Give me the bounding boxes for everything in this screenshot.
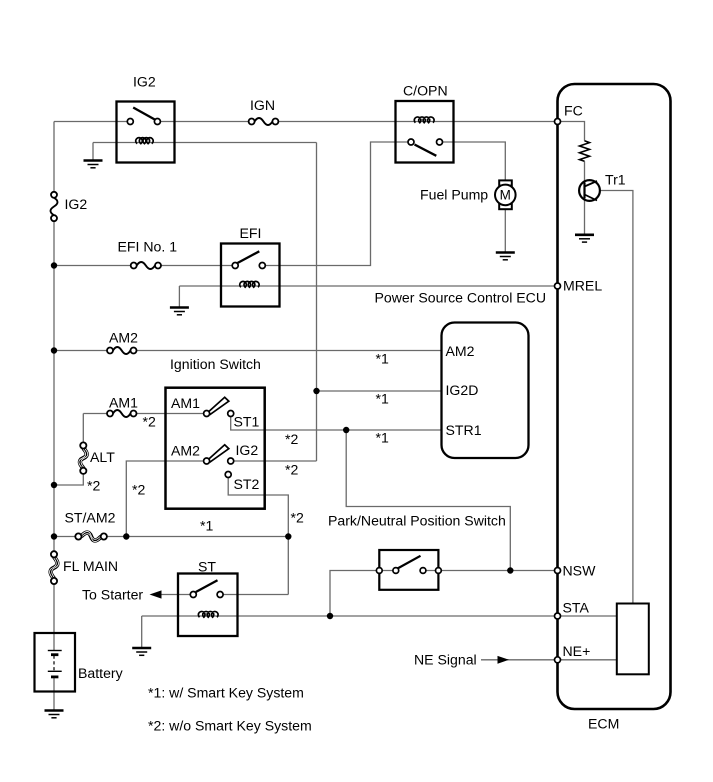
wire transistor emitter to ground bbox=[584, 200, 586, 235]
svg-text:IG2: IG2 bbox=[236, 442, 259, 458]
junction bus-ST/AM2 line bbox=[51, 533, 57, 539]
pin NE+ bbox=[555, 657, 561, 663]
svg-text:AM2: AM2 bbox=[109, 330, 138, 346]
svg-text:NE Signal: NE Signal bbox=[414, 652, 477, 668]
relay EFI switch blade bbox=[238, 251, 260, 263]
wire EFI coil line to MREL pin bbox=[179, 285, 557, 287]
ignition switch box bbox=[166, 388, 265, 509]
fuel pump motor M1 bbox=[495, 180, 516, 209]
junction park/neutral feed on STA line bbox=[327, 613, 333, 619]
wire IG2 relay coil line to vertical drop bbox=[93, 142, 317, 144]
svg-text:STR1: STR1 bbox=[446, 422, 482, 438]
park/neutral switch blade bbox=[398, 556, 421, 569]
wire EFI fuse to EFI relay contact bbox=[158, 265, 235, 267]
wire AM2 pivot feed vertical bbox=[126, 461, 206, 537]
svg-text:ST: ST bbox=[198, 559, 216, 575]
relay ST coil bbox=[198, 611, 218, 617]
wire FC to resistor lead bbox=[558, 122, 585, 141]
pin MREL bbox=[555, 283, 561, 289]
wire AM1 line ALT tap to fuse bbox=[83, 413, 110, 415]
svg-text:AM2: AM2 bbox=[171, 443, 200, 459]
svg-text:M: M bbox=[500, 188, 511, 203]
ground EFI relay bbox=[170, 308, 189, 315]
ground ST relay coil bbox=[132, 648, 151, 655]
svg-text:FL MAIN: FL MAIN bbox=[63, 558, 118, 574]
svg-text:Tr1: Tr1 bbox=[605, 172, 626, 188]
battery internal dashed wire styling bbox=[53, 656, 55, 672]
ground IG2 relay bbox=[84, 161, 103, 168]
wire STA internal to block bbox=[558, 615, 617, 617]
wire Tr1 base line down to ECM block bbox=[600, 191, 633, 604]
relay C/OPN switch blade bbox=[415, 145, 437, 156]
fuse EFI No. 1 bbox=[131, 262, 161, 269]
wire left bus top segment (battery + to IG2 relay) bbox=[53, 122, 55, 634]
wire EFI No.1 line from bus bbox=[54, 265, 134, 267]
relay IG2 coil bbox=[136, 138, 153, 144]
relay C/OPN contacts bbox=[408, 139, 443, 145]
svg-text:*2: *2 bbox=[285, 431, 298, 447]
battery B1 box bbox=[35, 633, 76, 692]
ignition switch blade row 2 (AM2) bbox=[208, 445, 229, 462]
relay IG2 contacts bbox=[127, 119, 160, 125]
wire IG2 line to ignition switch IG2 contact bbox=[231, 460, 317, 462]
park/neutral position switch box bbox=[379, 550, 438, 590]
svg-text:*1: w/ Smart Key System: *1: w/ Smart Key System bbox=[148, 685, 304, 701]
wire NE signal line bbox=[481, 659, 558, 661]
svg-text:Park/Neutral Position Switch: Park/Neutral Position Switch bbox=[328, 513, 506, 529]
relay IG2 box bbox=[117, 102, 175, 163]
pin FC bbox=[555, 119, 561, 125]
svg-text:EFI No. 1: EFI No. 1 bbox=[118, 239, 178, 255]
wire park/neutral switch internal left bbox=[379, 570, 396, 572]
pin STA bbox=[555, 613, 561, 619]
wire AM2 line bus to fuse bbox=[54, 350, 110, 352]
svg-text:Ignition Switch: Ignition Switch bbox=[170, 356, 261, 372]
wire IGN fuse to C/OPN coil to FC pin bbox=[275, 121, 557, 123]
svg-text:Fuel Pump: Fuel Pump bbox=[420, 187, 488, 203]
wire ST/AM2 line from bus bbox=[54, 536, 78, 538]
wire ST1 contact stub and STR1 line bbox=[231, 416, 442, 430]
wire park/neutral feed up from STA line bbox=[330, 571, 379, 617]
svg-text:EFI: EFI bbox=[240, 225, 262, 241]
transistor Tr1 bbox=[579, 180, 600, 201]
to starter arrowhead bbox=[150, 590, 162, 598]
wire top feed line y=121.5 bus to IG2 relay contact bbox=[54, 121, 130, 123]
junction AM2 feed on ST/AM2 line bbox=[123, 533, 129, 539]
wire IG2D branch bbox=[317, 390, 442, 392]
junction bus-EFI line bbox=[51, 262, 57, 268]
wire AM2 fuse to Power Source Control ECU AM2 bbox=[134, 350, 442, 352]
svg-text:*2: *2 bbox=[143, 414, 156, 430]
battery cell plates bbox=[48, 651, 62, 677]
svg-text:*2: w/o Smart Key System: *2: w/o Smart Key System bbox=[148, 718, 312, 734]
wire NE+ internal to block bbox=[558, 659, 617, 661]
wire ST relay output line bbox=[220, 594, 288, 596]
svg-text:IGN: IGN bbox=[250, 97, 275, 113]
fuse AM1 bbox=[107, 410, 137, 417]
svg-text:*1: *1 bbox=[376, 391, 389, 407]
relay ST switch blade bbox=[196, 580, 218, 592]
svg-text:*2: *2 bbox=[87, 478, 100, 494]
svg-text:NSW: NSW bbox=[563, 563, 597, 579]
junction ST2 vertical on ST/AM2 line bbox=[285, 533, 291, 539]
pin NSW bbox=[555, 568, 561, 574]
fusible link ST/AM2 bbox=[75, 531, 107, 541]
relay EFI box bbox=[221, 244, 280, 307]
junction IG2D branch on IG2 vertical bbox=[313, 388, 319, 394]
wire STR1 branch down to park/neutral line bbox=[346, 430, 510, 571]
wire battery positive lead bbox=[53, 633, 55, 651]
wire ST coil line ground stub bbox=[141, 616, 143, 648]
wire AM1 fuse to ignition switch AM1 pivot bbox=[134, 413, 207, 415]
relay C/OPN coil bbox=[414, 117, 434, 123]
wire battery internal dashed bbox=[53, 656, 55, 671]
svg-text:ST/AM2: ST/AM2 bbox=[65, 510, 116, 526]
svg-text:FC: FC bbox=[564, 103, 583, 119]
svg-text:IG2: IG2 bbox=[65, 196, 88, 212]
svg-text:ECM: ECM bbox=[588, 716, 619, 732]
relay C/OPN box bbox=[396, 101, 454, 163]
wire ST/AM2 link to ST relay vertical bbox=[104, 536, 288, 538]
relay ST contacts bbox=[190, 592, 223, 598]
relay EFI contacts bbox=[232, 263, 265, 269]
svg-text:*2: *2 bbox=[132, 482, 145, 498]
wire IG2 relay output to IGN fuse bbox=[157, 121, 251, 123]
fuse AM2 bbox=[107, 347, 137, 354]
svg-text:ST1: ST1 bbox=[234, 414, 260, 430]
svg-text:ALT: ALT bbox=[90, 449, 115, 465]
svg-text:AM1: AM1 bbox=[171, 395, 200, 411]
fusible link FL MAIN bbox=[50, 551, 59, 584]
wire resistor to transistor lead bbox=[584, 161, 586, 181]
wire to starter arrow line bbox=[159, 594, 193, 596]
ignition switch blade row 1 (AM1) bbox=[208, 397, 229, 414]
wire ST coil line to STA pin bbox=[142, 615, 558, 617]
wire C/OPN switch output to fuel pump bbox=[440, 142, 506, 181]
svg-text:*2: *2 bbox=[291, 510, 304, 526]
svg-text:C/OPN: C/OPN bbox=[403, 83, 448, 99]
park/neutral switch contacts bbox=[376, 568, 441, 574]
junction STR1 branch bbox=[343, 427, 349, 433]
wire ST2 contact stub bbox=[228, 478, 288, 595]
svg-text:Power Source Control ECU: Power Source Control ECU bbox=[375, 290, 547, 306]
ground fuel pump bbox=[496, 253, 515, 260]
wire EFI relay output up to C/OPN switch bbox=[262, 142, 411, 266]
ECM box bbox=[558, 84, 671, 709]
wire ALT vertical bbox=[54, 414, 83, 486]
resistor R1 (FC pull) bbox=[580, 141, 590, 162]
wire fuel pump to ground bbox=[504, 209, 506, 253]
svg-text:MREL: MREL bbox=[563, 278, 602, 294]
fusible link ALT bbox=[79, 442, 88, 474]
ECM internal block bbox=[617, 604, 649, 675]
fuse IGN bbox=[249, 118, 279, 125]
ground Tr1 emitter bbox=[575, 235, 594, 242]
svg-text:*1: *1 bbox=[376, 430, 389, 446]
ground battery bbox=[45, 711, 64, 718]
wire battery negative lead bbox=[53, 677, 55, 710]
ignition switch contacts row 1 bbox=[204, 411, 234, 417]
svg-text:*1: *1 bbox=[200, 518, 213, 534]
svg-text:AM2: AM2 bbox=[446, 343, 475, 359]
junction park/neutral line junction bbox=[507, 567, 513, 573]
fuse IG2 bbox=[51, 192, 58, 221]
relay EFI coil bbox=[240, 281, 259, 287]
Power Source Control ECU box bbox=[442, 323, 529, 459]
relay IG2 switch blade bbox=[133, 108, 155, 120]
wire vertical IG2 signal line bbox=[316, 143, 318, 462]
svg-text:To Starter: To Starter bbox=[82, 587, 143, 603]
junction bus-AM2 line bbox=[51, 347, 57, 353]
svg-text:IG2D: IG2D bbox=[446, 382, 479, 398]
svg-text:ST2: ST2 bbox=[234, 476, 260, 492]
svg-text:*2: *2 bbox=[285, 462, 298, 478]
svg-text:AM1: AM1 bbox=[109, 395, 138, 411]
svg-text:NE+: NE+ bbox=[563, 643, 591, 659]
wire IG2 relay ground stub bbox=[92, 143, 94, 161]
relay ST box bbox=[178, 574, 238, 637]
wire park/neutral output to NSW pin bbox=[423, 570, 558, 572]
svg-text:STA: STA bbox=[563, 600, 590, 616]
NE signal arrowhead bbox=[498, 656, 510, 664]
junction bus-ALT line bbox=[51, 482, 57, 488]
svg-text:Battery: Battery bbox=[78, 665, 124, 681]
ignition switch contacts row 2 bbox=[204, 458, 234, 478]
wire EFI coil line ground stub bbox=[178, 286, 180, 307]
svg-text:IG2: IG2 bbox=[133, 74, 156, 90]
svg-text:*1: *1 bbox=[376, 351, 389, 367]
